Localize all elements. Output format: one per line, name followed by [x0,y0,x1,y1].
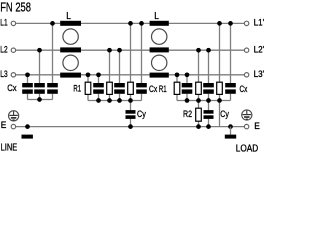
choke L (stage 1) winding L1 [60,21,81,26]
wire R1a bottom stub [87,94,89,100]
wire L3 to Cxa top [98,75,100,83]
terminal E load-side [244,124,248,128]
capacitor Cx f [225,83,236,94]
junction L1/Cxc [139,21,144,26]
wire R1e bottom stub [198,94,200,100]
junction E line right ground [228,124,233,129]
wire Cxf bottom stub [230,94,232,101]
junction input star [37,97,42,102]
wire R1b bottom stub [109,94,111,100]
wire R2 to earth line [198,121,200,126]
wire L2&apos; to Cxe top [208,50,210,83]
junction right bus R1e/R2 [196,98,201,103]
choke L (stage 2) core circle upper [152,29,167,44]
wire middle star bus [88,100,142,102]
wire R1d bottom stub [176,94,178,100]
wire line L1 to L1&apos; [16,22,245,24]
wire L1 drop to input Cx (right) [52,23,54,83]
svg-text:Cy: Cy [137,109,146,119]
wire right bus to Cy right [208,101,210,111]
junction L3&apos;/R1d [175,72,180,77]
svg-text:E: E [1,120,7,130]
choke L (stage 2) winding L1 [150,21,169,26]
junction L3&apos;/Cxd [185,72,190,77]
choke L (stage 1) core circle upper [63,29,78,44]
junction L1/input-Cx [50,21,55,26]
junction L1/R1c [128,21,133,26]
junction mid bus R1c/Cy [128,98,133,103]
choke L (stage 1) core circle lower [63,55,78,70]
junction L3/R1a [86,72,91,77]
junction L1&apos;/R1f [217,21,222,26]
capacitor Cx a [93,83,104,94]
wire L2 drop to input Cx (middle) [39,50,41,83]
capacitor Cx input L1 [47,83,58,94]
svg-text:E: E [254,121,260,131]
wire earth line E to E [16,126,245,128]
svg-text:Cy: Cy [220,109,229,119]
junction E line Cy right [206,124,211,129]
wire line L3 to L3&apos; [16,74,245,76]
wire R1c bottom stub [130,94,132,100]
svg-text:Cx: Cx [7,83,17,93]
junction E line left ground [25,124,30,129]
svg-text:FN 258: FN 258 [0,0,31,14]
junction L2&apos;/R1e [196,48,201,53]
wire L1 to R1c top [130,23,132,82]
wire right star bus [177,100,231,102]
wire Cxc bottom stub [141,94,143,101]
wire L3&apos; to Cxd top [186,75,188,83]
terminal E line-side [11,124,15,128]
wire right bus to R2 [198,101,200,109]
svg-text:L: L [66,11,71,22]
svg-text:R1: R1 [159,84,167,94]
wire Cxb bottom stub [119,94,121,101]
resistor R1f [217,82,223,94]
wire L2&apos; to R1e top [198,50,200,82]
wire input Cx star bus stub [52,94,54,100]
svg-text:L3': L3' [254,69,265,79]
wire input Cx left bottom stub [27,94,29,100]
terminal L1 [11,21,15,25]
resistor R1c [128,82,134,94]
resistor R1e [196,82,202,94]
svg-text:L2: L2 [0,45,7,55]
wire input Cx star bus [28,99,53,101]
junction mid bus Cxa [96,98,101,103]
capacitor Cy right [204,110,214,119]
junction right bus R1f [217,98,222,103]
wire L2 to R1b top [109,50,111,82]
junction L2&apos;/Cxe [206,48,211,53]
junction right bus Cxe/Cy [206,98,211,103]
resistor R1d [174,82,180,94]
wire L1&apos; to Cxf top [230,23,232,83]
junction E line Cy left [128,124,133,129]
junction L3/input-Cx [25,72,30,77]
svg-text:L1': L1' [254,18,265,28]
resistor R2 [196,108,202,121]
svg-text:L: L [154,11,159,22]
choke L (stage 1) winding L3 [60,73,81,78]
junction mid bus Cxb [117,98,122,103]
wire input Cx middle bottom stub [39,94,41,100]
wire L2 to Cxb top [119,50,121,83]
resistor R1b [107,82,113,94]
wire L1&apos; to R1f top [219,23,221,82]
wire L1 to Cxc top [141,23,143,83]
svg-text:L3: L3 [0,69,7,79]
wire L3 drop to input Cx (left) [27,75,29,83]
wire Cxa bottom stub [98,94,100,101]
capacitor Cx input L2 [34,83,45,94]
svg-text:L2': L2' [254,45,265,55]
protective-earth symbol line side [9,111,19,121]
wire L3 to R1a top [87,75,89,82]
junction L1&apos;/Cxf [228,21,233,26]
wire star bus to Cy left [130,101,132,111]
junction L3/Cxa [96,72,101,77]
terminal L3' [244,73,248,77]
svg-text:Cx: Cx [149,84,158,94]
junction E line R2 [196,124,201,129]
wire Cy left to earth line [130,119,132,127]
resistor R1a [85,82,91,94]
wire L3&apos; to R1d top [176,75,178,82]
wire Cxe bottom stub [208,94,210,101]
wire R1f bottom stub [219,94,221,100]
svg-text:LINE: LINE [1,143,18,154]
capacitor Cx c [136,83,147,94]
chassis-ground bar load side [225,127,236,139]
wire right bus direct drop to earth line [219,101,221,127]
junction right bus Cxd [185,98,190,103]
junction L2/R1b [107,48,112,53]
capacitor Cx e [203,83,214,94]
junction L2/Cxb [117,48,122,53]
junction mid bus R1b [107,98,112,103]
wire Cy right to earth line [208,119,210,127]
junction L2/input-Cx [37,48,42,53]
capacitor Cy left [126,110,136,119]
choke L (stage 2) winding L3 [150,73,169,78]
wire line L2 to L2&apos; [16,49,245,51]
svg-text:LOAD: LOAD [236,144,258,155]
terminal L3 [11,73,15,77]
svg-text:R1: R1 [73,84,81,94]
chassis-ground bar line side [22,135,33,139]
terminal L2' [244,48,248,52]
choke L (stage 2) core circle lower [152,55,167,70]
choke L (stage 1) winding L2 [60,47,81,52]
svg-text:R2: R2 [183,109,192,119]
terminal L2 [11,48,15,52]
protective-earth symbol load side [242,110,252,120]
capacitor Cx d [182,83,193,94]
svg-text:Cx: Cx [240,84,248,94]
capacitor Cx input L3 [22,83,33,94]
choke L (stage 2) winding L2 [150,47,169,52]
terminal L1' [244,21,248,25]
capacitor Cx b [114,83,125,94]
svg-text:L1: L1 [0,18,7,28]
wire Cxd bottom stub [186,94,188,101]
